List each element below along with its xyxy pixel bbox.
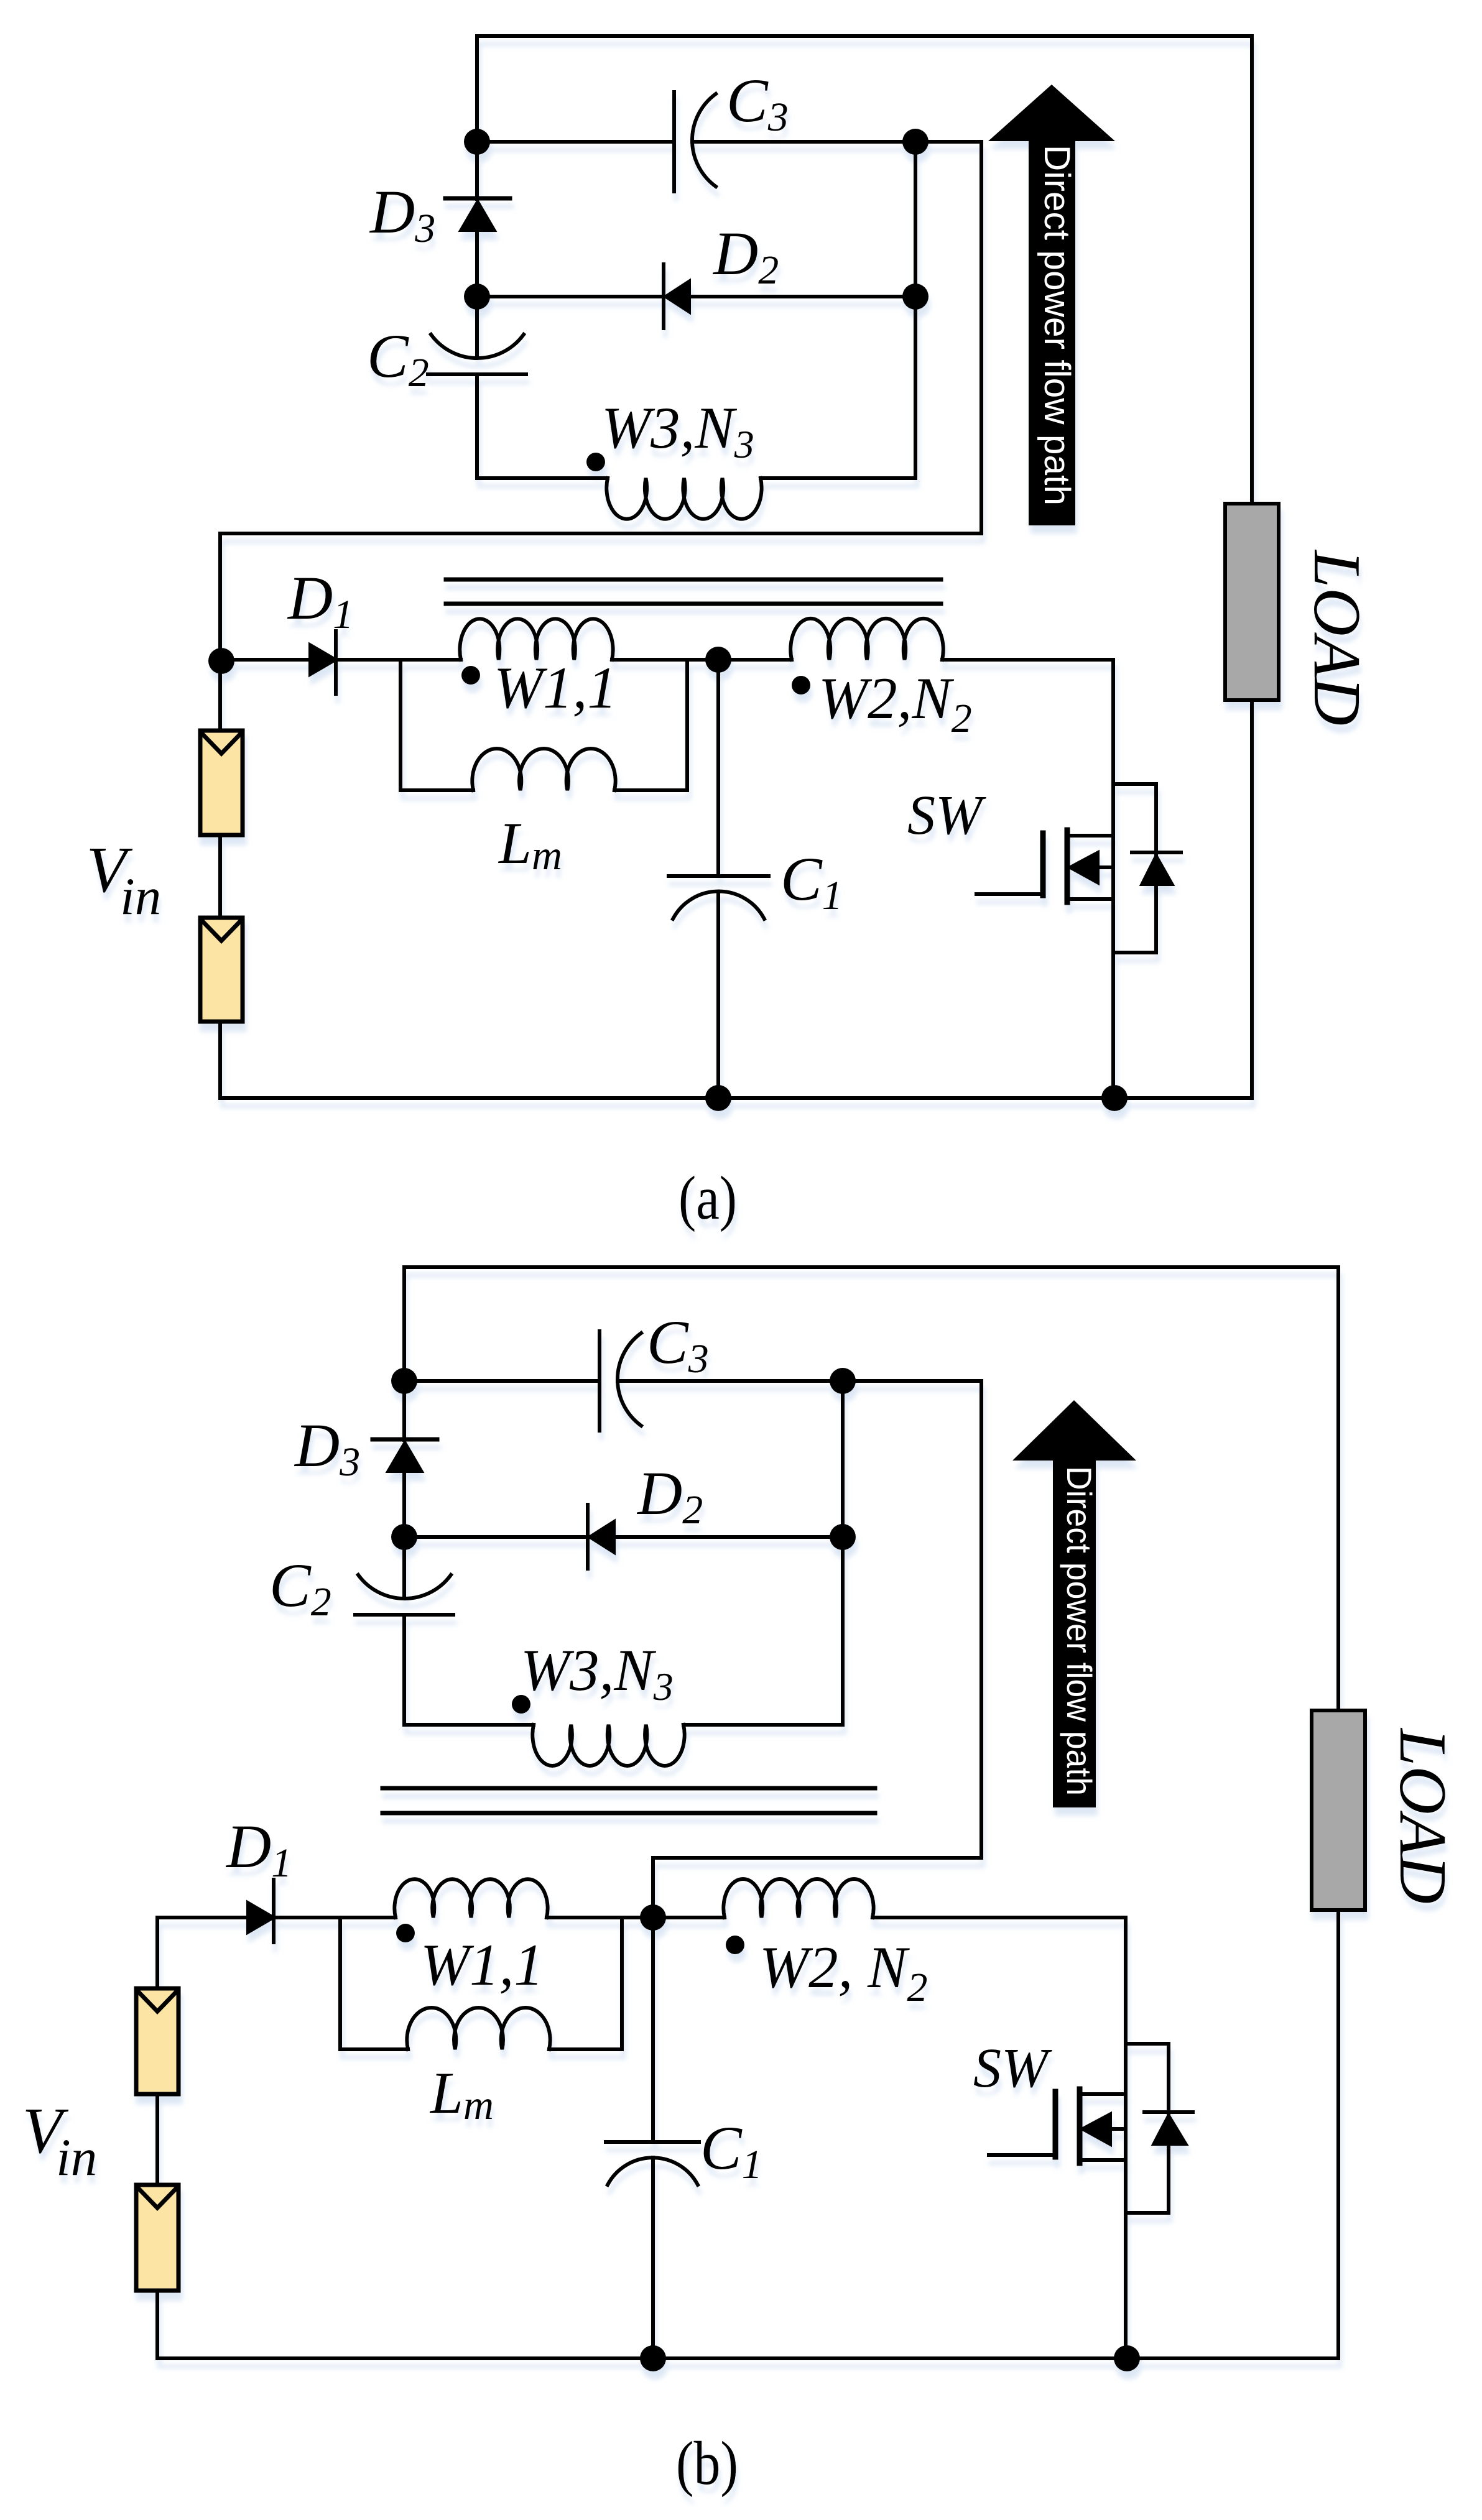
svg-text:W3,N3: W3,N3 [601, 395, 754, 466]
wire: D2 rail left segment (a) [477, 295, 664, 298]
diode D3 (b) [373, 1439, 437, 1537]
node E2: main junction W1/W2/C1 (b) [640, 1904, 666, 1931]
diode D1 (b) [248, 1880, 396, 1942]
capacitor C1 (a) [669, 660, 769, 1098]
node A2: C3 left junction (b) [391, 1368, 417, 1394]
node: phase dot of W2 (a) [792, 676, 810, 695]
wire: Lm bottom right segment (a) [614, 788, 687, 792]
wire: vertical drop to main node (b) [651, 1858, 655, 1918]
wire: horizontal return at y=2988 (b) [653, 1856, 981, 1860]
wire: W3 bottom rail left segment (a) [477, 476, 608, 480]
wire: main rail right segment to SW (b) [873, 1916, 1126, 1919]
body diode of SW (b) [1126, 2044, 1193, 2213]
voltage source Vin (b) : PV cell 2 [136, 2185, 178, 2291]
winding W2,N2 (b) [723, 1879, 873, 1918]
diode D2 (a) [664, 264, 915, 328]
wire: C3 rail left segment (b) [404, 1379, 600, 1383]
svg-text:(a): (a) [678, 1163, 737, 1232]
wire: between Vin cells (a) [218, 835, 222, 918]
wire: Lm bottom left segment (b) [340, 2047, 408, 2051]
svg-text:W2,N2: W2,N2 [818, 665, 972, 741]
transformer core (a) [446, 579, 941, 604]
wire: Lm bottom left segment (a) [401, 788, 473, 792]
wire: W3-loop right vertical (b) [841, 1381, 845, 1725]
svg-text:W1,1: W1,1 [420, 1932, 544, 1998]
svg-text:Direct power flow path: Direct power flow path [1037, 145, 1077, 505]
voltage source Vin (a) : PV cell 2 [200, 918, 243, 1022]
node B2: C3 right junction (b) [830, 1368, 856, 1394]
diode D1 (a) [310, 631, 461, 694]
winding W3,N3 (a) [606, 478, 761, 519]
node C: D2 left junction (a) [464, 284, 490, 310]
voltage source Vin (b) : PV cell 1 [136, 1988, 178, 2094]
transistor SW mosfet (a) [976, 660, 1113, 1098]
inductor Lm (b) [407, 2008, 550, 2049]
wire: top rail of fig (b) [404, 1265, 1338, 1269]
wire: main rail middle segment (b) [547, 1916, 725, 1919]
diode D3 (a) [445, 198, 510, 297]
wire: bottom rail of fig (b) [157, 2356, 1338, 2360]
wire: vertical x=1578 from y=858 up to C3 rail (a) [980, 142, 983, 533]
wire: left vertical from D1 node up (a) [218, 533, 222, 731]
svg-text:W3,N3: W3,N3 [521, 1637, 674, 1709]
capacitor C2 (a) [428, 297, 526, 478]
svg-text:SW: SW [907, 785, 986, 846]
wire: vertical x=1578 down from C3 rail (b) [980, 1381, 983, 1858]
wire: bottom rail of fig (a) [220, 1096, 1252, 1100]
svg-text:LOAD: LOAD [1300, 549, 1374, 726]
wire: upper-left horizontal at y=858 (a) [220, 532, 981, 535]
direct power flow arrow (b) [1012, 1400, 1136, 1807]
node C2n: D2 left junction (b) [391, 1524, 417, 1550]
wire: main rail middle segment (a) [612, 658, 792, 662]
wire: W3-loop left vertical upper segment (a) [475, 36, 479, 199]
wire: Vin to bottom rail (a) [218, 1022, 222, 1098]
wire: Lm loop right vertical (b) [620, 1918, 624, 2049]
load resistor LOAD (b) [1312, 1710, 1365, 1910]
node: phase dot of W3 (b) [512, 1695, 530, 1714]
capacitor C3 (a) [674, 92, 981, 192]
transistor SW mosfet (b) [989, 1918, 1126, 2358]
wire: Lm loop left vertical (b) [338, 1918, 342, 2049]
node D2n: D2 right junction (b) [830, 1524, 856, 1550]
wire: top rail of fig (a) [477, 34, 1252, 38]
node: phase dot of W1 (b) [396, 1924, 415, 1942]
wire: main rail left segment (b) [157, 1916, 248, 1919]
wire: W3 bottom rail right segment (b) [683, 1723, 843, 1727]
inductor Lm (a) [472, 749, 615, 790]
wire: W3-loop right vertical (a) [914, 142, 917, 478]
node A: C3 left junction (a) [464, 129, 490, 155]
wire: W3-loop left vertical upper segment (b) [402, 1267, 406, 1440]
node F2: C1 bottom junction (b) [640, 2345, 666, 2371]
svg-text:LOAD: LOAD [1386, 1727, 1460, 1904]
wire: W3 bottom rail left segment (b) [404, 1723, 534, 1727]
node: phase dot of W3 (a) [586, 453, 605, 471]
svg-text:W1,1: W1,1 [494, 655, 617, 721]
diode D2 (b) [588, 1505, 843, 1569]
wire: left rail top (b), D1 to Vin [155, 1918, 159, 1988]
node: phase dot of W2 (b) [726, 1936, 744, 1954]
winding W3,N3 (b) [532, 1725, 684, 1766]
node G: C1 bottom junction (a) [705, 1085, 731, 1111]
wire: Lm bottom right segment (b) [549, 2047, 622, 2051]
winding W2,N2 (a) [790, 619, 943, 660]
wire: Vin to bottom rail (b) [155, 2291, 159, 2358]
node E: main junction W1/W2/C1 (a) [705, 647, 731, 673]
svg-text:Direct power flow path: Direct power flow path [1060, 1466, 1099, 1796]
wire: main rail left segment (a) [220, 658, 310, 662]
node B: C3 right junction (a) [902, 129, 929, 155]
load resistor LOAD (a) [1225, 504, 1279, 700]
wire: W3 bottom rail right segment (a) [761, 476, 915, 480]
wire: right rail upper (b), top rail to LOAD [1336, 1267, 1340, 1710]
node F: D1 anode junction (a) [208, 648, 234, 674]
wire: between Vin cells (b) [155, 2094, 159, 2185]
wire: C3 rail left segment (a) [477, 140, 674, 144]
capacitor C3 (b) [600, 1331, 981, 1431]
node H: SW source junction (a) [1101, 1085, 1128, 1111]
capacitor C2 (b) [355, 1537, 453, 1725]
wire: right rail upper (a), top rail to LOAD [1250, 36, 1254, 504]
transformer core (b) [382, 1788, 875, 1813]
body diode of SW (a) [1113, 784, 1181, 953]
wire: right rail lower (a), LOAD to bottom rail [1250, 700, 1254, 1098]
wire: Lm loop left vertical (a) [399, 660, 402, 790]
node: phase dot of W1 (a) [461, 666, 480, 685]
wire: right rail lower (b), LOAD to bottom rail [1336, 1910, 1340, 2358]
node D: D2 right junction (a) [902, 284, 929, 310]
winding W1,1 (a) [460, 619, 613, 660]
wire: Lm loop right vertical (a) [685, 660, 689, 790]
svg-text:(b): (b) [676, 2429, 738, 2498]
direct power flow arrow (a) [988, 85, 1115, 525]
wire: main rail right segment to SW (a) [942, 658, 1113, 662]
node G2: SW source junction (b) [1114, 2345, 1140, 2371]
voltage source Vin (a) : PV cell 1 [200, 731, 243, 835]
svg-text:W2, N2: W2, N2 [759, 1934, 928, 2010]
capacitor C1 (b) [606, 1918, 699, 2358]
svg-text:SW: SW [973, 2038, 1052, 2099]
wire: D2 rail left segment (b) [404, 1535, 588, 1539]
winding W1,1 (b) [394, 1879, 547, 1918]
